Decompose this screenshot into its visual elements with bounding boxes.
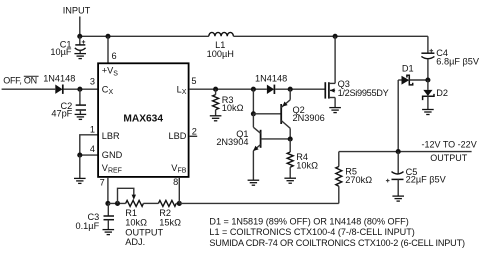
svg-text:6: 6 xyxy=(112,51,117,61)
wire: pin 4 GND xyxy=(80,154,98,156)
svg-text:+VS: +VS xyxy=(102,66,119,78)
resistor R5 xyxy=(336,152,372,204)
svg-text:0.1µF: 0.1µF xyxy=(76,221,100,231)
resistor R1 (adjustable) xyxy=(125,195,163,247)
svg-text:CX: CX xyxy=(102,84,114,96)
svg-text:10µF: 10µF xyxy=(50,47,72,57)
svg-text:LBD: LBD xyxy=(169,131,187,141)
ground (pins 1,4) xyxy=(74,178,86,183)
node: junction Q3 drain xyxy=(333,34,338,39)
node: junction C2 xyxy=(77,87,82,92)
svg-text:LBR: LBR xyxy=(102,131,120,141)
wire: to Q2 base xyxy=(253,113,280,115)
diode 1N4148 (LX row) xyxy=(255,74,287,94)
ground (C1) xyxy=(74,54,86,59)
wire: top rail left of L1 xyxy=(80,35,209,37)
node OFF/ON label xyxy=(3,76,38,86)
wire: OFF/ON input lead xyxy=(2,88,56,90)
svg-text:22µF β5V: 22µF β5V xyxy=(406,175,447,185)
wire: R2 to pin 8 node xyxy=(176,202,179,204)
svg-text:SUMIDA CDR-74 OR COILTRONICS C: SUMIDA CDR-74 OR COILTRONICS CTX100-2 (6… xyxy=(209,238,465,248)
inductor L1 xyxy=(207,32,234,59)
wire: pin 7 Vref down xyxy=(107,177,109,203)
svg-text:2: 2 xyxy=(192,126,197,136)
svg-text:6.8µF β5V: 6.8µF β5V xyxy=(436,56,480,66)
svg-text:7: 7 xyxy=(100,177,105,187)
ground (D2) xyxy=(422,110,434,115)
ground (C5) xyxy=(392,196,404,201)
wire: diode to Q3 gate xyxy=(275,88,325,90)
node: junction input/C1 xyxy=(77,34,82,39)
transistor Q1 2N3904 xyxy=(216,114,290,180)
svg-text:-12V TO -22V: -12V TO -22V xyxy=(422,140,477,150)
ground (C2) xyxy=(75,114,87,119)
pin 2 stub xyxy=(189,135,197,137)
transistor Q3 1/2 Si9955DY (MOSFET) xyxy=(325,36,388,107)
svg-text:10kΩ: 10kΩ xyxy=(125,218,147,228)
wire: node A down to Q2 base tie xyxy=(252,89,254,114)
ground (C3) xyxy=(103,230,115,235)
svg-text:D2: D2 xyxy=(436,88,448,98)
svg-text:L1 = COILTRONICS CTX100-4 (7-/: L1 = COILTRONICS CTX100-4 (7-/8-CELL INP… xyxy=(209,227,414,237)
node: junction before diode xyxy=(251,87,256,92)
node: junction R1 wiper tie xyxy=(115,201,120,206)
svg-text:R2: R2 xyxy=(159,208,171,218)
svg-text:1: 1 xyxy=(90,125,95,135)
node: junction Q1 base / Q2 collector / R4 xyxy=(288,136,293,141)
svg-text:VFB: VFB xyxy=(171,163,186,175)
svg-text:10kΩ: 10kΩ xyxy=(296,161,318,171)
resistor R3 xyxy=(213,89,244,115)
wire: output rail xyxy=(339,151,472,153)
node: junction +Vs xyxy=(105,34,110,39)
capacitor C4 xyxy=(421,36,480,80)
wire: pin7 to R1 xyxy=(108,202,126,204)
node: output junction xyxy=(396,149,401,154)
capacitor C2 xyxy=(51,89,86,118)
svg-text:2N3904: 2N3904 xyxy=(216,137,248,147)
wire: to ground xyxy=(79,155,81,178)
svg-text:GND: GND xyxy=(102,150,123,160)
capacitor C3 xyxy=(76,203,114,230)
wire: diode to pin 3 xyxy=(64,88,99,90)
svg-text:OUTPUT: OUTPUT xyxy=(430,153,468,163)
ground (Q3 source) xyxy=(329,108,341,113)
note: component notes xyxy=(209,217,465,248)
resistor R2 xyxy=(158,200,181,227)
node: junction R3 xyxy=(213,87,218,92)
wire: pin 8 Vfb down xyxy=(178,177,180,203)
node: junction pin1/pin4 xyxy=(77,153,82,158)
wire: pin 1 LBR xyxy=(80,135,98,155)
svg-text:MAX634: MAX634 xyxy=(123,114,163,125)
wire: D1 anode to output node xyxy=(397,80,399,152)
svg-text:OFF, ON: OFF, ON xyxy=(3,76,37,86)
svg-text:100µH: 100µH xyxy=(207,49,234,59)
svg-text:5: 5 xyxy=(191,76,196,86)
diode D1 (1N5819 schottky) xyxy=(398,63,428,85)
svg-text:10kΩ: 10kΩ xyxy=(222,103,244,113)
wire: top rail right of L1 xyxy=(233,35,428,37)
wire: INPUT lead xyxy=(79,17,81,37)
wire: R1 wiper bracket xyxy=(118,188,134,203)
capacitor C5 xyxy=(386,152,447,196)
diode D2 (schottky) xyxy=(423,80,448,109)
svg-text:D1: D1 xyxy=(402,63,414,73)
svg-text:ADJ.: ADJ. xyxy=(125,237,145,247)
svg-text:15kΩ: 15kΩ xyxy=(159,218,181,228)
svg-text:1N4148: 1N4148 xyxy=(43,74,75,84)
node: junction C4/D1/D2 xyxy=(425,77,430,82)
ground (Q1 emitter) xyxy=(248,180,260,185)
wire: R1 to R2 xyxy=(143,202,158,204)
svg-text:1/2Si9955DY: 1/2Si9955DY xyxy=(338,88,389,98)
op-amp U1 MAX634 (IC box) xyxy=(98,63,189,177)
node: junction Q1 collector / Q2 base xyxy=(251,111,256,116)
node: node A (gate drive) xyxy=(288,87,293,92)
svg-text:4: 4 xyxy=(90,144,95,154)
svg-text:D1 = 1N5819 (89% OFF) OR 1N414: D1 = 1N5819 (89% OFF) OR 1N4148 (80% OFF… xyxy=(209,217,408,227)
resistor R4 xyxy=(287,139,318,178)
node: output labels xyxy=(422,140,477,163)
capacitor C1 xyxy=(50,36,85,57)
svg-text:47pF: 47pF xyxy=(51,108,72,118)
svg-text:VREF: VREF xyxy=(102,163,122,175)
node: junction pin7/C3 xyxy=(105,201,110,206)
svg-text:LX: LX xyxy=(177,84,187,96)
svg-text:3: 3 xyxy=(90,76,95,86)
svg-text:1N4148: 1N4148 xyxy=(255,74,287,84)
ground (R4) xyxy=(284,178,296,183)
diode 1N4148 (OFF/ON) xyxy=(43,74,75,94)
transistor Q2 2N3906 xyxy=(281,89,324,139)
wire: LX row pin 5 xyxy=(189,88,267,90)
svg-text:R1: R1 xyxy=(125,208,137,218)
svg-text:270kΩ: 270kΩ xyxy=(345,175,372,185)
ground (R3) xyxy=(210,116,222,121)
wire: feedback line to R5 xyxy=(179,202,338,204)
svg-text:8: 8 xyxy=(173,177,178,187)
svg-text:OUTPUT: OUTPUT xyxy=(125,227,163,237)
svg-text:2N3906: 2N3906 xyxy=(293,113,325,123)
node: junction pin 8 xyxy=(177,201,182,206)
svg-text:INPUT: INPUT xyxy=(63,6,91,16)
wire: pin 6 to +Vs xyxy=(107,36,109,63)
